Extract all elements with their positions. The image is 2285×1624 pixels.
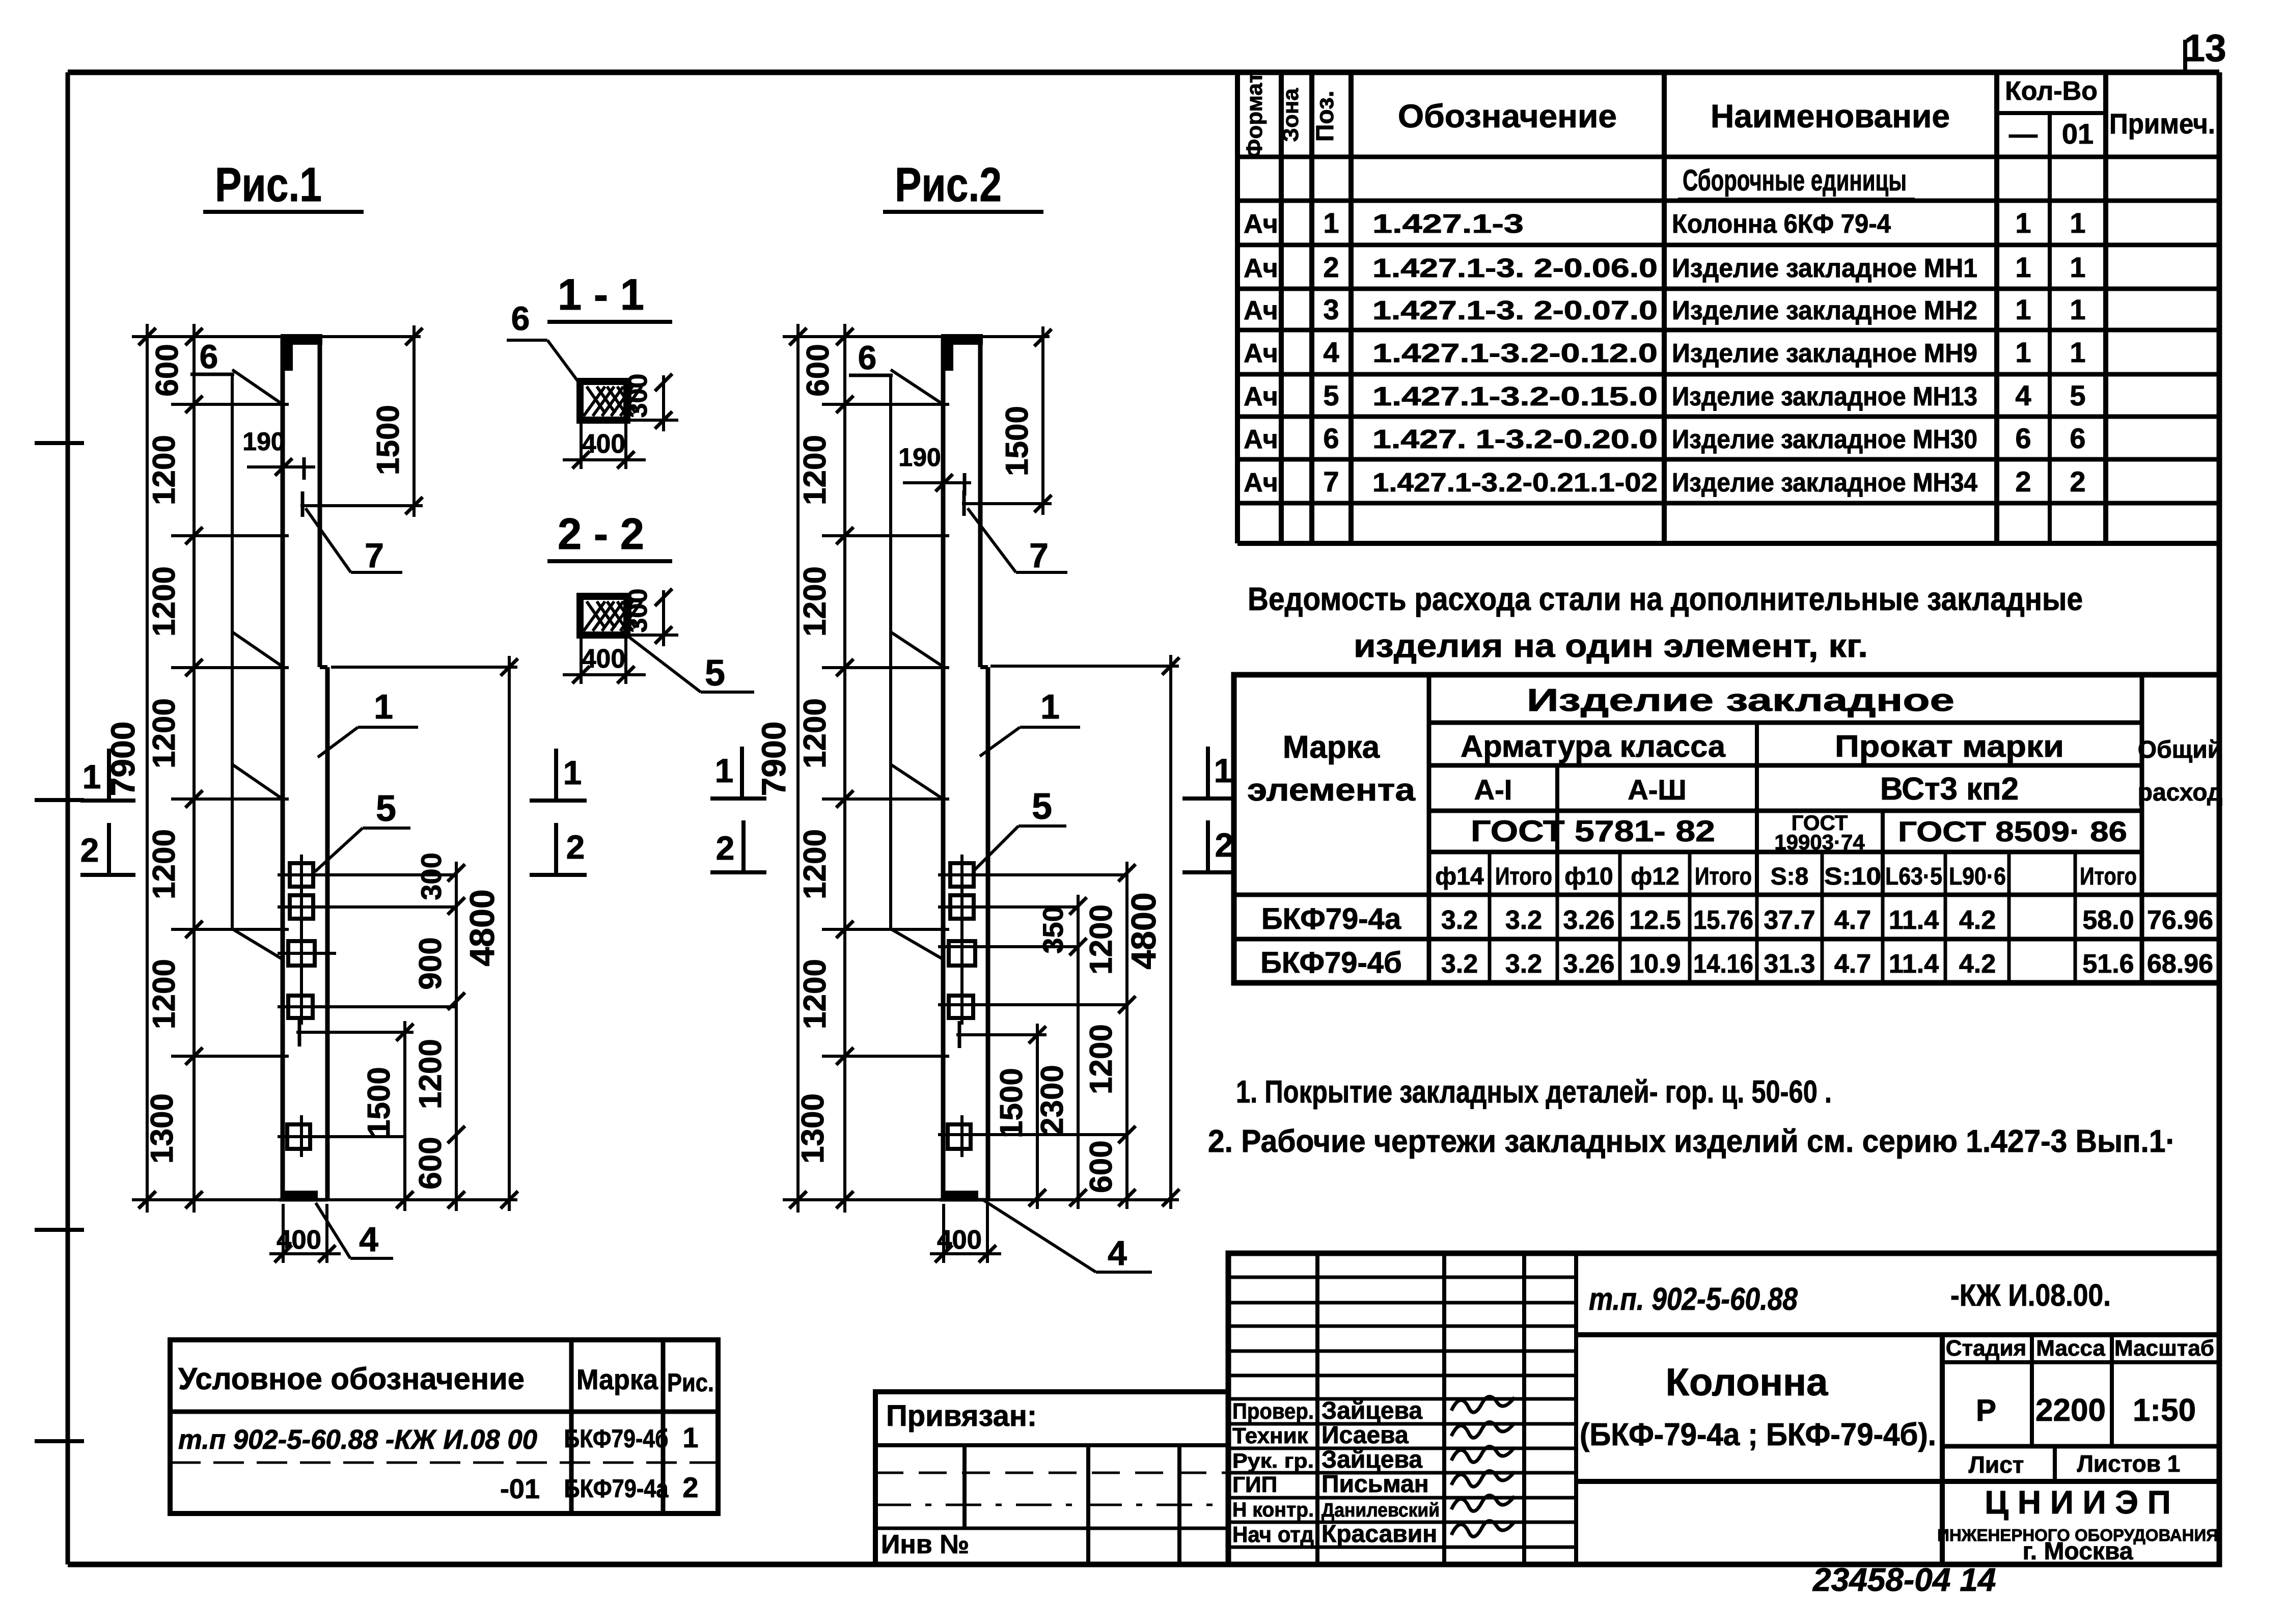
svg-text:Зона: Зона [1278,88,1303,142]
svg-text:Условное обозначение: Условное обозначение [178,1362,525,1396]
svg-text:2: 2 [682,1471,698,1503]
svg-text:68.96: 68.96 [2147,949,2213,979]
svg-text:2: 2 [2070,465,2085,498]
svg-text:1: 1 [2015,336,2031,368]
svg-text:400: 400 [277,1225,321,1255]
svg-text:350: 350 [1037,906,1069,953]
svg-text:51.6: 51.6 [2082,949,2134,979]
svg-text:4: 4 [2015,379,2031,411]
svg-text:Зайцева: Зайцева [1322,1446,1422,1473]
svg-text:600: 600 [150,344,185,396]
svg-text:37.7: 37.7 [1764,905,1815,935]
svg-text:4.7: 4.7 [1834,905,1871,935]
svg-text:7900: 7900 [755,722,792,796]
svg-text:Итого: Итого [2080,863,2137,890]
svg-text:600: 600 [413,1137,448,1189]
svg-text:300: 300 [415,852,447,900]
svg-text:1500: 1500 [362,1067,397,1137]
svg-text:БКФ79-4б: БКФ79-4б [1260,946,1402,979]
svg-text:Н контр.: Н контр. [1232,1499,1314,1521]
svg-text:S:8: S:8 [1771,863,1809,890]
svg-text:1200: 1200 [147,959,182,1029]
svg-text:Изделие закладное МН13: Изделие закладное МН13 [1672,382,1977,411]
svg-text:4: 4 [359,1220,378,1259]
svg-text:7: 7 [1323,465,1339,498]
svg-text:Примеч.: Примеч. [2109,107,2215,140]
svg-text:12.5: 12.5 [1629,905,1681,935]
svg-text:1.427.1-3. 2-0.06.0: 1.427.1-3. 2-0.06.0 [1372,254,1658,283]
svg-text:6: 6 [2015,422,2031,454]
svg-text:Изделие закладное МН9: Изделие закладное МН9 [1672,339,1977,368]
svg-text:2: 2 [1323,251,1339,283]
svg-text:Письман: Письман [1322,1471,1429,1498]
svg-text:1300: 1300 [795,1093,831,1164]
svg-text:1.427.1-3. 2-0.07.0: 1.427.1-3. 2-0.07.0 [1372,296,1658,325]
svg-text:1200: 1200 [797,698,833,768]
svg-text:5: 5 [1032,786,1052,827]
svg-text:Нач отд: Нач отд [1232,1522,1314,1547]
svg-text:Ач: Ач [1244,425,1278,454]
svg-text:3.2: 3.2 [1505,905,1542,935]
svg-text:1200: 1200 [797,959,833,1029]
svg-text:5: 5 [2070,379,2085,411]
svg-text:А-Ш: А-Ш [1628,774,1686,806]
svg-text:1: 1 [2070,251,2085,283]
svg-text:3.26: 3.26 [1563,905,1614,935]
svg-text:Формат: Формат [1242,72,1267,158]
svg-text:Привязан:: Привязан: [886,1399,1037,1433]
svg-text:2300: 2300 [1035,1065,1070,1135]
svg-text:300: 300 [623,589,653,633]
svg-text:Ведомость расхода стали на доп: Ведомость расхода стали на дополнительны… [1248,581,2083,617]
svg-text:1: 1 [374,687,393,726]
svg-text:1: 1 [2070,336,2085,368]
svg-text:190: 190 [242,427,285,456]
svg-text:1: 1 [2070,293,2085,325]
svg-text:6: 6 [511,299,530,337]
svg-text:19903·74: 19903·74 [1774,830,1865,854]
svg-text:Изделие закладное МН34: Изделие закладное МН34 [1672,468,1977,498]
svg-text:2: 2 [1215,826,1234,864]
svg-text:А-I: А-I [1474,774,1512,806]
svg-text:Листов 1: Листов 1 [2077,1450,2181,1477]
svg-text:Общий: Общий [2138,736,2223,763]
svg-text:Колонна 6КФ 79-4: Колонна 6КФ 79-4 [1672,209,1891,239]
svg-text:5: 5 [376,788,396,829]
svg-text:1.427.1-3.2-0.15.0: 1.427.1-3.2-0.15.0 [1372,382,1658,411]
svg-text:элемента: элемента [1247,773,1416,808]
svg-text:S:10: S:10 [1824,863,1881,890]
svg-text:1200: 1200 [147,698,182,768]
svg-text:4: 4 [1323,336,1339,368]
svg-text:400: 400 [937,1225,982,1255]
svg-text:1: 1 [2070,207,2085,239]
svg-text:г. Москва: г. Москва [2023,1538,2133,1565]
svg-text:1: 1 [715,752,734,789]
svg-text:13: 13 [2184,26,2226,69]
svg-text:1200: 1200 [1084,1024,1119,1094]
svg-text:Провер.: Провер. [1232,1399,1314,1424]
svg-text:Прокат марки: Прокат марки [1835,729,2064,763]
svg-text:190: 190 [898,443,941,472]
svg-text:1: 1 [1040,687,1060,726]
svg-text:2: 2 [2015,465,2031,498]
svg-text:3: 3 [1323,293,1339,325]
svg-text:Ц Н И И Э П: Ц Н И И Э П [1985,1484,2170,1521]
svg-text:1.427.1-3: 1.427.1-3 [1372,209,1524,239]
svg-text:4800: 4800 [463,889,502,966]
svg-text:Рис.1: Рис.1 [215,158,322,212]
svg-text:Лист: Лист [1969,1451,2024,1478]
svg-text:Масса: Масса [2036,1336,2105,1361]
svg-text:Наименование: Наименование [1711,98,1950,134]
svg-text:1200: 1200 [413,1039,448,1109]
svg-text:т.п 902-5-60.88 -КЖ И.08 00: т.п 902-5-60.88 -КЖ И.08 00 [178,1424,537,1455]
svg-text:600: 600 [1084,1140,1119,1193]
svg-text:1: 1 [1323,207,1339,239]
svg-text:Марка: Марка [576,1363,658,1395]
svg-text:2: 2 [566,828,585,866]
svg-text:Итого: Итого [1495,863,1552,890]
svg-text:Р: Р [1976,1393,1996,1427]
svg-text:1500: 1500 [371,405,406,475]
svg-text:4.2: 4.2 [1959,949,1996,979]
svg-text:1.427.1-3.2-0.21.1-02: 1.427.1-3.2-0.21.1-02 [1372,468,1658,498]
svg-text:14.16: 14.16 [1693,949,1753,979]
svg-text:1: 1 [2015,251,2031,283]
svg-text:2200: 2200 [2035,1393,2106,1428]
svg-text:1200: 1200 [797,829,833,899]
svg-text:6: 6 [1323,422,1339,454]
svg-text:1500: 1500 [994,1068,1029,1138]
svg-text:ГОСТ 8509· 86: ГОСТ 8509· 86 [1898,815,2127,847]
svg-text:3.2: 3.2 [1441,949,1478,979]
svg-text:Рис.: Рис. [667,1368,714,1397]
svg-text:11.4: 11.4 [1889,905,1939,935]
svg-text:300: 300 [623,374,653,418]
svg-text:76.96: 76.96 [2147,905,2213,935]
svg-text:ф10: ф10 [1564,863,1613,890]
svg-text:—: — [2009,118,2038,150]
svg-text:-01: -01 [500,1474,540,1504]
svg-text:2: 2 [716,829,735,867]
svg-text:Ач: Ач [1244,296,1278,325]
svg-text:Ач: Ач [1244,468,1278,498]
svg-text:11.4: 11.4 [1889,949,1939,979]
svg-text:Изделие закладное МН1: Изделие закладное МН1 [1672,254,1977,283]
svg-text:1200: 1200 [147,829,182,899]
svg-text:Рук. гр.: Рук. гр. [1232,1450,1314,1472]
svg-text:23458-04 14: 23458-04 14 [1812,1561,1996,1598]
svg-text:L90·6: L90·6 [1949,863,2006,890]
svg-text:900: 900 [413,937,448,989]
svg-text:БКФ79-4а: БКФ79-4а [1261,902,1401,935]
svg-text:Ач: Ач [1244,254,1278,283]
svg-text:1.427. 1-3.2-0.20.0: 1.427. 1-3.2-0.20.0 [1372,425,1658,454]
svg-text:6: 6 [200,338,218,375]
svg-text:ВСт3 кп2: ВСт3 кп2 [1880,772,2019,807]
svg-text:1.427.1-3.2-0.12.0: 1.427.1-3.2-0.12.0 [1372,339,1658,368]
svg-text:ф12: ф12 [1631,863,1679,890]
svg-text:4.7: 4.7 [1834,949,1871,979]
svg-text:7: 7 [1029,536,1049,575]
svg-text:6: 6 [858,339,877,376]
svg-text:ГИП: ГИП [1232,1472,1277,1497]
svg-text:Зайцева: Зайцева [1322,1397,1422,1424]
svg-text:т.п. 902-5-60.88: т.п. 902-5-60.88 [1589,1282,1798,1317]
svg-text:Итого: Итого [1695,863,1752,890]
svg-text:Масштаб: Масштаб [2114,1336,2214,1361]
svg-text:1200: 1200 [1084,904,1119,975]
svg-text:1: 1 [82,758,101,795]
svg-text:4: 4 [1108,1234,1127,1273]
svg-text:Рис.2: Рис.2 [895,158,1002,212]
svg-text:400: 400 [582,644,625,674]
svg-text:Техник: Техник [1232,1423,1309,1448]
svg-text:2: 2 [80,831,99,869]
svg-text:2. Рабочие чертежи закладных и: 2. Рабочие чертежи закладных изделий см.… [1208,1124,2176,1159]
svg-text:Ач: Ач [1244,382,1278,411]
svg-text:1 - 1: 1 - 1 [558,270,644,319]
svg-text:1: 1 [1214,752,1233,789]
svg-text:15.76: 15.76 [1693,905,1753,935]
svg-text:Изделие закладное МН2: Изделие закладное МН2 [1672,296,1977,325]
svg-text:1. Покрытие закладных деталей-: 1. Покрытие закладных деталей- гор. ц. 5… [1236,1075,1832,1110]
svg-text:4800: 4800 [1124,892,1163,969]
svg-text:1300: 1300 [145,1093,180,1164]
svg-text:Поз.: Поз. [1312,91,1339,142]
svg-text:600: 600 [801,344,836,396]
svg-text:БКФ79-4б: БКФ79-4б [564,1424,669,1453]
svg-text:Исаева: Исаева [1322,1422,1409,1449]
svg-text:(БКФ-79-4а ; БКФ-79-4б).: (БКФ-79-4а ; БКФ-79-4б). [1580,1417,1936,1452]
svg-text:Данилевский: Данилевский [1322,1500,1440,1521]
svg-text:1200: 1200 [797,566,833,637]
svg-text:58.0: 58.0 [2082,905,2134,935]
svg-text:Обозначение: Обозначение [1398,98,1617,134]
svg-text:7: 7 [365,536,384,575]
svg-text:31.3: 31.3 [1764,949,1815,979]
svg-text:1200: 1200 [147,435,182,505]
svg-text:Колонна: Колонна [1666,1361,1828,1404]
svg-text:10.9: 10.9 [1629,949,1681,979]
svg-text:ф14: ф14 [1435,863,1484,890]
svg-text:Ач: Ач [1244,209,1278,239]
svg-text:Инв №: Инв № [881,1530,969,1559]
svg-text:Арматура класса: Арматура класса [1461,729,1726,763]
svg-text:1200: 1200 [797,435,833,505]
svg-text:5: 5 [1323,379,1339,411]
svg-text:1: 1 [2015,293,2031,325]
svg-text:2 - 2: 2 - 2 [558,510,644,559]
svg-text:3.2: 3.2 [1441,905,1478,935]
svg-text:Стадия: Стадия [1946,1336,2026,1361]
svg-text:Кол-Во: Кол-Во [2005,76,2098,106]
svg-text:1: 1 [563,754,582,791]
svg-text:расход: расход [2138,779,2223,806]
svg-text:-КЖ И.08.00.: -КЖ И.08.00. [1950,1278,2111,1312]
svg-text:6: 6 [2070,422,2085,454]
svg-text:Ач: Ач [1244,339,1278,368]
svg-text:Красавин: Красавин [1322,1521,1437,1548]
svg-text:01: 01 [2062,118,2094,150]
svg-text:1:50: 1:50 [2133,1393,2196,1428]
svg-text:5: 5 [705,653,725,694]
svg-text:400: 400 [582,429,625,459]
svg-text:Изделие закладное: Изделие закладное [1527,683,1954,718]
svg-text:1200: 1200 [147,566,182,637]
svg-text:3.26: 3.26 [1563,949,1614,979]
svg-text:Сборочные единицы: Сборочные единицы [1683,164,1907,197]
svg-text:ГОСТ 5781- 82: ГОСТ 5781- 82 [1471,815,1715,848]
svg-text:1: 1 [682,1421,698,1453]
svg-text:Марка: Марка [1283,730,1380,765]
svg-text:1: 1 [2015,207,2031,239]
svg-text:1500: 1500 [1000,406,1035,476]
svg-text:4.2: 4.2 [1959,905,1996,935]
svg-text:БКФ79-4а: БКФ79-4а [564,1474,669,1503]
svg-text:Изделие закладное МН30: Изделие закладное МН30 [1672,425,1977,454]
svg-text:3.2: 3.2 [1505,949,1542,979]
svg-text:L63·5: L63·5 [1885,863,1942,890]
svg-text:изделия на один элемент, кг.: изделия на один элемент, кг. [1354,627,1868,664]
